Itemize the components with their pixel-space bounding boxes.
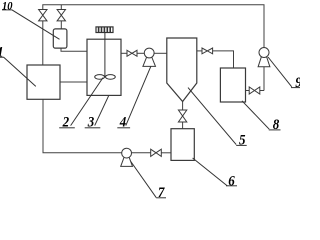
svg-text:7: 7 [158,185,165,200]
svg-text:6: 6 [228,174,235,190]
svg-text:8: 8 [273,117,280,133]
svg-text:5: 5 [239,133,246,149]
svg-text:2: 2 [62,114,70,130]
svg-text:1: 1 [0,45,4,61]
svg-text:9: 9 [295,75,300,91]
svg-text:4: 4 [119,114,127,130]
svg-text:3: 3 [87,114,95,130]
svg-text:10: 10 [2,0,13,12]
